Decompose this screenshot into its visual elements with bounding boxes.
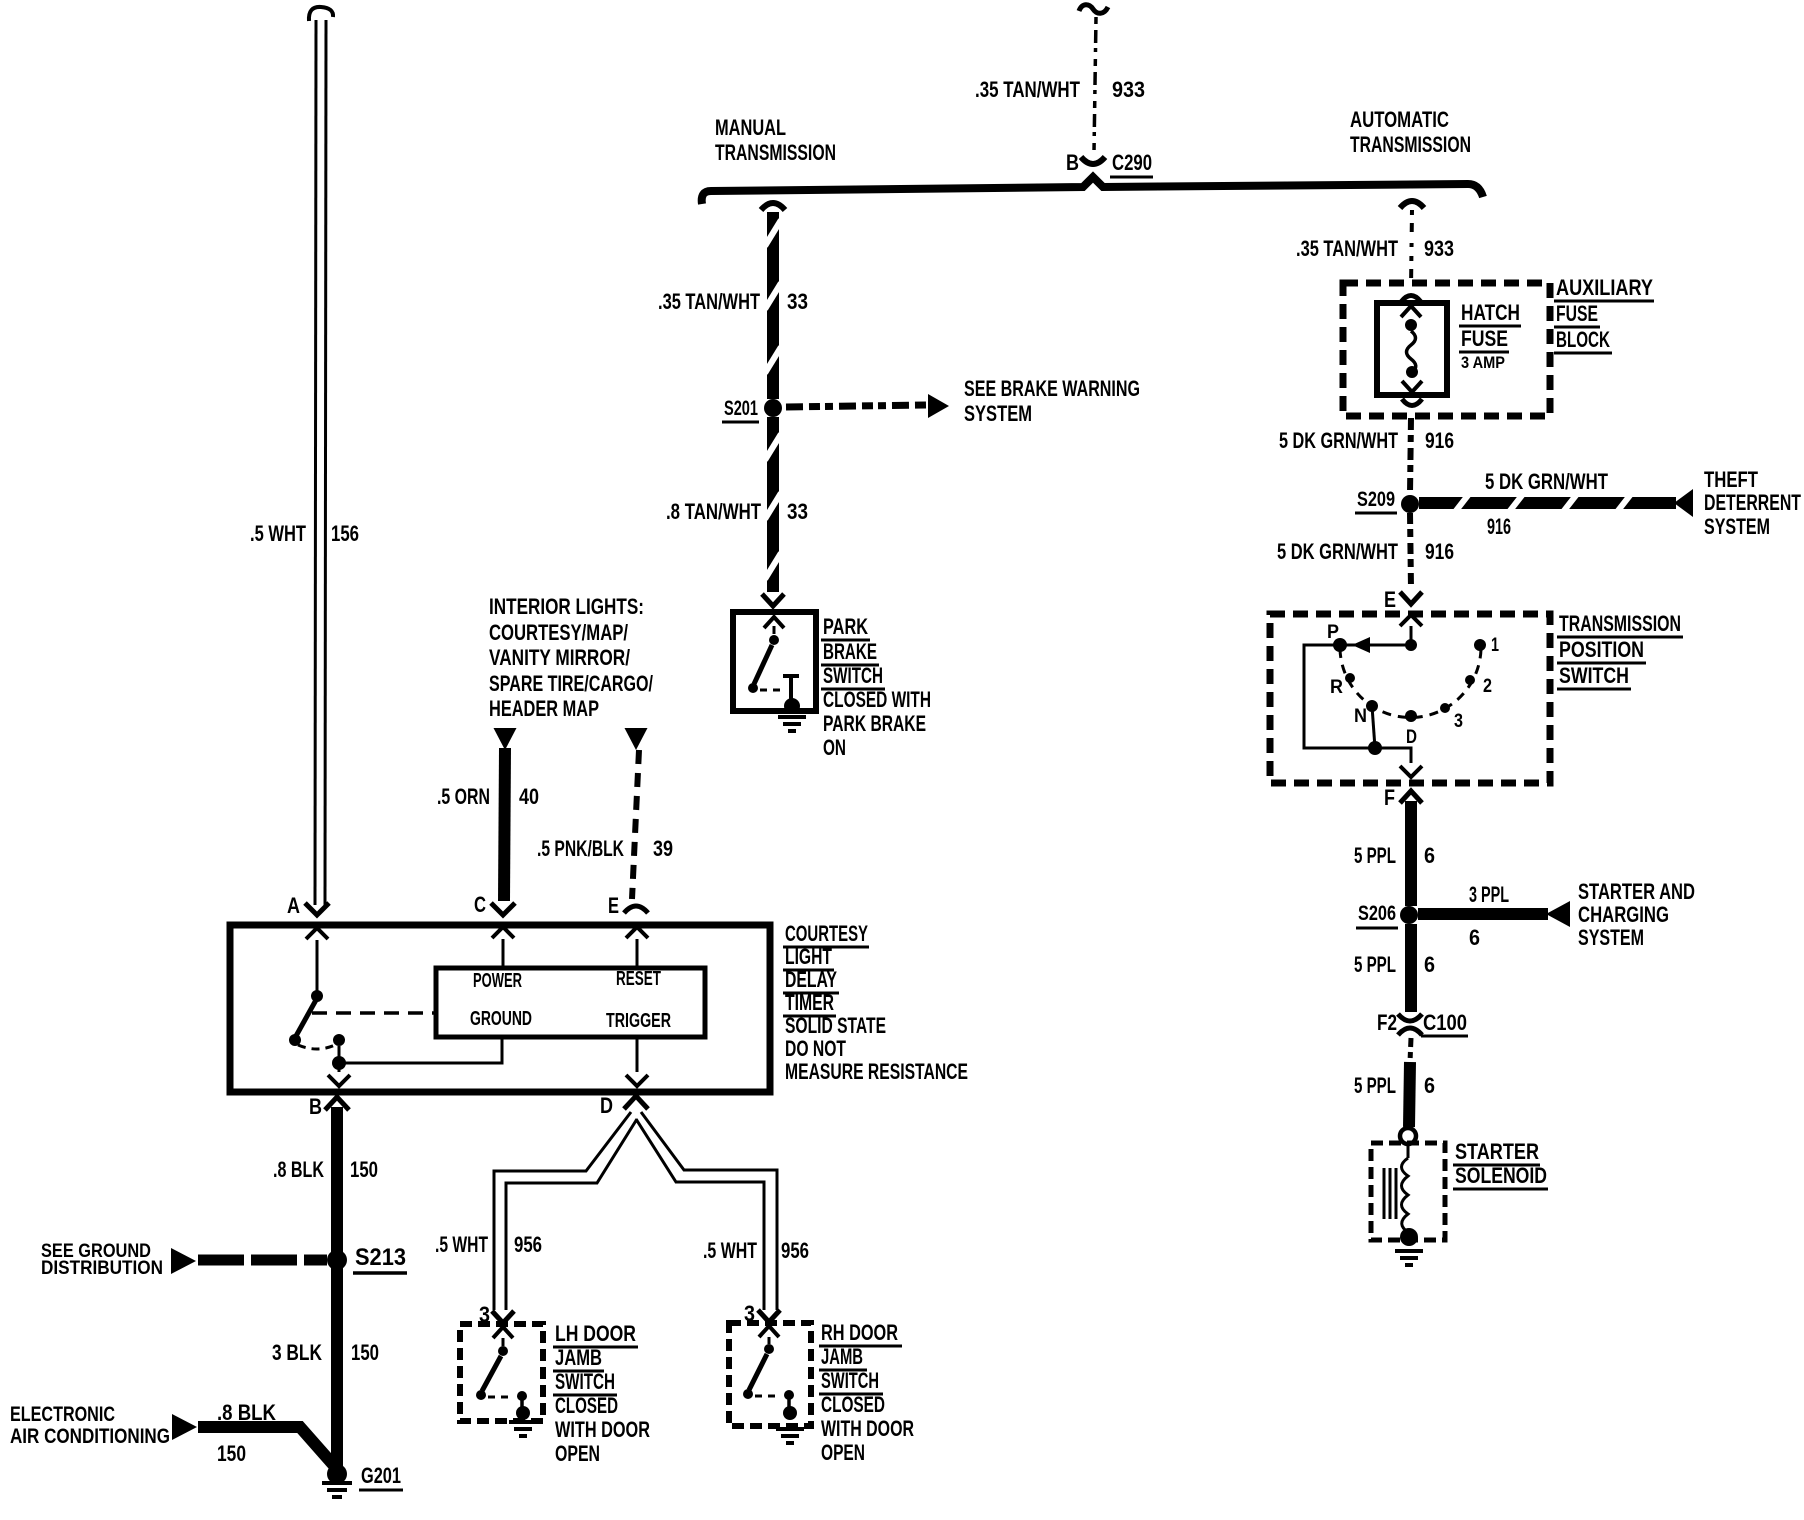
svg-text:3 AMP: 3 AMP: [1461, 353, 1505, 372]
timer TRIGGER to pin D: [636, 1037, 639, 1072]
svg-text:5 PPL: 5 PPL: [1354, 952, 1396, 977]
svg-text:OPEN: OPEN: [555, 1441, 600, 1466]
svg-text:150: 150: [350, 1157, 378, 1182]
svg-text:956: 956: [781, 1238, 809, 1263]
switch contact D: [1405, 710, 1417, 722]
wire .35 TAN/WHT 33 (striped): [767, 212, 779, 399]
switch contact 1: [1474, 639, 1486, 651]
svg-text:5 PPL: 5 PPL: [1354, 843, 1396, 868]
switch contact N: [1366, 700, 1378, 712]
svg-text:.5 WHT: .5 WHT: [435, 1232, 488, 1257]
ground G201: [327, 1464, 347, 1484]
timer pin E to RESET: [626, 927, 648, 938]
svg-text:150: 150: [217, 1441, 246, 1466]
svg-text:ELECTRONIC: ELECTRONIC: [10, 1403, 115, 1426]
svg-text:OPEN: OPEN: [821, 1440, 865, 1465]
svg-text:S213: S213: [355, 1244, 406, 1271]
park brake switch internals: [764, 617, 784, 628]
branch connector (automatic transmission side): [1400, 201, 1424, 208]
wire from ground distribution (dashed): [171, 1248, 196, 1274]
svg-text:C100: C100: [1423, 1010, 1467, 1035]
svg-text:.5 WHT: .5 WHT: [250, 521, 306, 546]
splice S213: [327, 1250, 347, 1270]
svg-text:6: 6: [1424, 1073, 1435, 1098]
svg-text:.8 TAN/WHT: .8 TAN/WHT: [666, 499, 761, 524]
svg-text:3: 3: [1454, 711, 1463, 732]
svg-text:AUXILIARY: AUXILIARY: [1556, 275, 1653, 300]
RH door jamb switch (dashed box): [729, 1323, 811, 1426]
LH door jamb switch internals: [493, 1327, 513, 1338]
svg-text:TRANSMISSION: TRANSMISSION: [1559, 611, 1681, 636]
svg-text:N: N: [1354, 706, 1367, 727]
svg-text:5 DK GRN/WHT: 5 DK GRN/WHT: [1485, 469, 1608, 494]
wire to brake warning system (stippled): [786, 405, 927, 407]
svg-text:CLOSED WITH: CLOSED WITH: [823, 687, 931, 712]
wire 5 PPL 6 (S206 to C100): [1405, 924, 1417, 1012]
svg-text:VANITY MIRROR/: VANITY MIRROR/: [489, 645, 630, 670]
courtesy light delay timer box: [230, 925, 770, 1092]
svg-text:E: E: [1384, 587, 1396, 612]
svg-text:SYSTEM: SYSTEM: [964, 401, 1032, 426]
svg-text:.35 TAN/WHT: .35 TAN/WHT: [658, 289, 760, 314]
svg-text:6: 6: [1424, 843, 1435, 868]
svg-text:TIMER: TIMER: [785, 990, 834, 1015]
svg-text:PARK BRAKE: PARK BRAKE: [823, 711, 926, 736]
wire break symbol (top of .35 TAN/WHT 933 feed): [1079, 5, 1108, 14]
svg-text:RH DOOR: RH DOOR: [821, 1320, 898, 1345]
svg-text:MEASURE RESISTANCE: MEASURE RESISTANCE: [785, 1059, 968, 1084]
ground at starter solenoid: [1400, 1228, 1418, 1246]
svg-text:MANUAL: MANUAL: [715, 115, 786, 140]
wire stub .35 TAN/WHT 933 into fuse block (stippled): [1411, 210, 1412, 288]
svg-text:6: 6: [1469, 925, 1480, 950]
ground at LH door jamb switch: [516, 1406, 530, 1420]
svg-text:S209: S209: [1357, 488, 1395, 511]
svg-text:P: P: [1327, 622, 1339, 643]
svg-text:33: 33: [787, 499, 808, 524]
svg-text:A: A: [287, 893, 300, 918]
svg-text:JAMB: JAMB: [821, 1344, 863, 1369]
wire 5 PPL 6 (F to S206): [1405, 801, 1417, 906]
svg-text:INTERIOR LIGHTS:: INTERIOR LIGHTS:: [489, 594, 644, 619]
svg-text:5 DK GRN/WHT: 5 DK GRN/WHT: [1279, 428, 1398, 453]
svg-text:BLOCK: BLOCK: [1556, 327, 1610, 352]
svg-text:E: E: [608, 893, 619, 918]
svg-text:LIGHT: LIGHT: [785, 944, 832, 969]
svg-text:.5 WHT: .5 WHT: [703, 1238, 757, 1263]
wire 5 DK GRN/WHT 916 to theft deterrent system (striped): [1419, 497, 1676, 509]
svg-text:WITH DOOR: WITH DOOR: [821, 1416, 914, 1441]
park brake switch box: [733, 612, 816, 711]
svg-text:PARK: PARK: [823, 614, 868, 639]
wire P to output junction: [1304, 645, 1375, 748]
svg-text:HATCH: HATCH: [1461, 300, 1520, 325]
switch contact P: [1333, 638, 1347, 652]
starter solenoid core: [1383, 1168, 1386, 1219]
svg-text:SYSTEM: SYSTEM: [1704, 514, 1770, 539]
wire .5 WHT 956 to LH door jamb switch (double line): [494, 1112, 631, 1310]
wire 3 BLK 150 (S213 to G201): [331, 1265, 343, 1468]
svg-text:916: 916: [1425, 539, 1454, 564]
bus wire at C290 (manual/automatic transmission split): [702, 177, 1483, 204]
svg-text:5 DK GRN/WHT: 5 DK GRN/WHT: [1277, 539, 1398, 564]
svg-text:DETERRENT: DETERRENT: [1704, 490, 1801, 515]
svg-text:.35 TAN/WHT: .35 TAN/WHT: [975, 77, 1080, 102]
svg-text:DELAY: DELAY: [785, 967, 837, 992]
svg-text:B: B: [1066, 150, 1079, 175]
svg-text:ON: ON: [823, 735, 846, 760]
svg-text:LH DOOR: LH DOOR: [555, 1321, 636, 1346]
starter solenoid coil: [1407, 1144, 1410, 1158]
wire 3 PPL 6 to starter and charging system: [1418, 908, 1548, 920]
svg-text:SOLENOID: SOLENOID: [1455, 1163, 1547, 1188]
svg-text:6: 6: [1424, 952, 1435, 977]
svg-text:COURTESY/MAP/: COURTESY/MAP/: [489, 620, 628, 645]
svg-text:B: B: [309, 1094, 322, 1119]
timer pin C to POWER: [492, 927, 514, 938]
ground at park brake switch: [784, 698, 800, 714]
svg-text:CHARGING: CHARGING: [1578, 902, 1669, 927]
svg-text:AUTOMATIC: AUTOMATIC: [1350, 107, 1449, 132]
svg-text:CLOSED: CLOSED: [555, 1393, 618, 1418]
switch contact arc P-R-N-D-3-2-1 (dashed): [1340, 645, 1481, 718]
wire .8 BLK 150 (pin B down): [331, 1107, 343, 1255]
svg-text:BRAKE: BRAKE: [823, 639, 877, 664]
svg-text:POSITION: POSITION: [1559, 637, 1644, 662]
wire 5 DK GRN/WHT 916 (S209 to switch pin E, stippled): [1410, 513, 1411, 588]
wire junction to pin F: [1375, 748, 1411, 763]
terminal at starter solenoid (open circle): [1400, 1128, 1416, 1144]
svg-text:HEADER MAP: HEADER MAP: [489, 696, 599, 721]
svg-text:RESET: RESET: [616, 968, 661, 990]
svg-text:GROUND: GROUND: [470, 1008, 532, 1030]
wire .8 TAN/WHT 33 (striped): [767, 417, 779, 592]
svg-text:S201: S201: [724, 397, 758, 420]
starter solenoid (dashed box): [1371, 1143, 1445, 1240]
svg-text:STARTER AND: STARTER AND: [1578, 879, 1695, 904]
svg-text:C: C: [474, 892, 486, 917]
svg-text:F: F: [1384, 785, 1395, 810]
wire .5 ORN 40 (from interior lights): [494, 728, 517, 750]
svg-text:G201: G201: [361, 1463, 401, 1488]
branch connector (manual transmission side): [761, 203, 785, 210]
connector at park brake switch: [762, 594, 784, 606]
svg-text:COURTESY: COURTESY: [785, 921, 868, 946]
timer GROUND wiring to pin B: [338, 1046, 341, 1058]
svg-text:5 PPL: 5 PPL: [1354, 1073, 1396, 1098]
svg-text:.35 TAN/WHT: .35 TAN/WHT: [1296, 236, 1398, 261]
switch contact 3: [1440, 703, 1450, 713]
LH door jamb switch (dashed box): [460, 1324, 543, 1421]
svg-text:JAMB: JAMB: [555, 1345, 602, 1370]
svg-text:933: 933: [1424, 236, 1454, 261]
svg-text:WITH DOOR: WITH DOOR: [555, 1417, 650, 1442]
svg-text:.8 BLK: .8 BLK: [273, 1157, 324, 1182]
svg-text:TRANSMISSION: TRANSMISSION: [1350, 132, 1471, 157]
svg-text:39: 39: [653, 836, 673, 861]
svg-text:F2: F2: [1377, 1010, 1397, 1035]
timer internal power/reset/ground/trigger box: [436, 968, 705, 1037]
svg-text:150: 150: [351, 1340, 379, 1365]
wire .35 TAN/WHT 933 (stippled, from top break to C290): [1094, 17, 1096, 152]
svg-text:956: 956: [514, 1232, 542, 1257]
svg-text:SYSTEM: SYSTEM: [1578, 925, 1644, 950]
svg-text:.8 BLK: .8 BLK: [217, 1400, 276, 1425]
auxiliary fuse block (dashed box): [1343, 283, 1550, 416]
wire .5 WHT 956 to RH door jamb switch (double line): [641, 1112, 777, 1310]
svg-text:FUSE: FUSE: [1556, 301, 1598, 326]
svg-text:THEFT: THEFT: [1704, 467, 1758, 492]
svg-text:DISTRIBUTION: DISTRIBUTION: [41, 1258, 163, 1279]
svg-text:FUSE: FUSE: [1461, 326, 1508, 351]
svg-text:33: 33: [787, 289, 808, 314]
svg-text:TRIGGER: TRIGGER: [606, 1010, 671, 1032]
wire 5 DK GRN/WHT 916 (fuse to S209, stippled): [1410, 418, 1411, 494]
svg-text:933: 933: [1112, 77, 1145, 102]
svg-text:AIR CONDITIONING: AIR CONDITIONING: [10, 1425, 170, 1448]
svg-text:TRANSMISSION: TRANSMISSION: [715, 140, 836, 165]
svg-text:.5 PNK/BLK: .5 PNK/BLK: [537, 836, 624, 861]
svg-text:1: 1: [1491, 635, 1499, 656]
svg-text:STARTER: STARTER: [1455, 1139, 1539, 1164]
wire .8 BLK 150 from electronic air conditioning: [172, 1414, 197, 1440]
svg-text:POWER: POWER: [473, 970, 522, 992]
svg-text:D: D: [1406, 727, 1417, 748]
RH door jamb switch internals: [759, 1326, 779, 1337]
hatch fuse (3 AMP): [1401, 296, 1421, 303]
svg-text:DO NOT: DO NOT: [785, 1036, 846, 1061]
svg-text:SWITCH: SWITCH: [821, 1368, 879, 1393]
wire .5 PNK/BLK 39 (dashed, from interior lights): [625, 728, 648, 750]
svg-text:SOLID STATE: SOLID STATE: [785, 1013, 886, 1038]
ground at RH door jamb switch: [783, 1406, 797, 1420]
svg-text:CLOSED: CLOSED: [821, 1392, 885, 1417]
svg-text:156: 156: [331, 521, 359, 546]
svg-text:916: 916: [1487, 514, 1511, 539]
svg-text:C290: C290: [1112, 150, 1152, 175]
svg-text:3 BLK: 3 BLK: [272, 1340, 322, 1365]
svg-text:40: 40: [519, 784, 539, 809]
switch contact R: [1345, 673, 1355, 683]
svg-text:SPARE TIRE/CARGO/: SPARE TIRE/CARGO/: [489, 671, 653, 696]
svg-text:.5 ORN: .5 ORN: [437, 784, 490, 809]
svg-text:S206: S206: [1358, 902, 1396, 925]
wire 5 PPL 6 (C100 to starter solenoid): [1410, 1038, 1411, 1062]
svg-text:2: 2: [1483, 676, 1492, 697]
svg-text:SEE BRAKE WARNING: SEE BRAKE WARNING: [964, 376, 1140, 401]
svg-text:R: R: [1330, 677, 1343, 698]
switch contact 2: [1465, 675, 1475, 685]
svg-text:SWITCH: SWITCH: [823, 663, 883, 688]
wire N to output junction: [1372, 706, 1375, 748]
timer pin A internal switch: [306, 928, 328, 939]
transmission position switch (dashed box): [1270, 614, 1550, 783]
transmission position switch internals: [1400, 615, 1422, 626]
svg-text:SWITCH: SWITCH: [1559, 663, 1629, 688]
svg-text:3 PPL: 3 PPL: [1469, 882, 1509, 907]
svg-text:916: 916: [1425, 428, 1454, 453]
wire .5 WHT 156 (double line from top): [309, 7, 333, 21]
svg-text:SWITCH: SWITCH: [555, 1369, 615, 1394]
svg-text:D: D: [600, 1093, 613, 1118]
